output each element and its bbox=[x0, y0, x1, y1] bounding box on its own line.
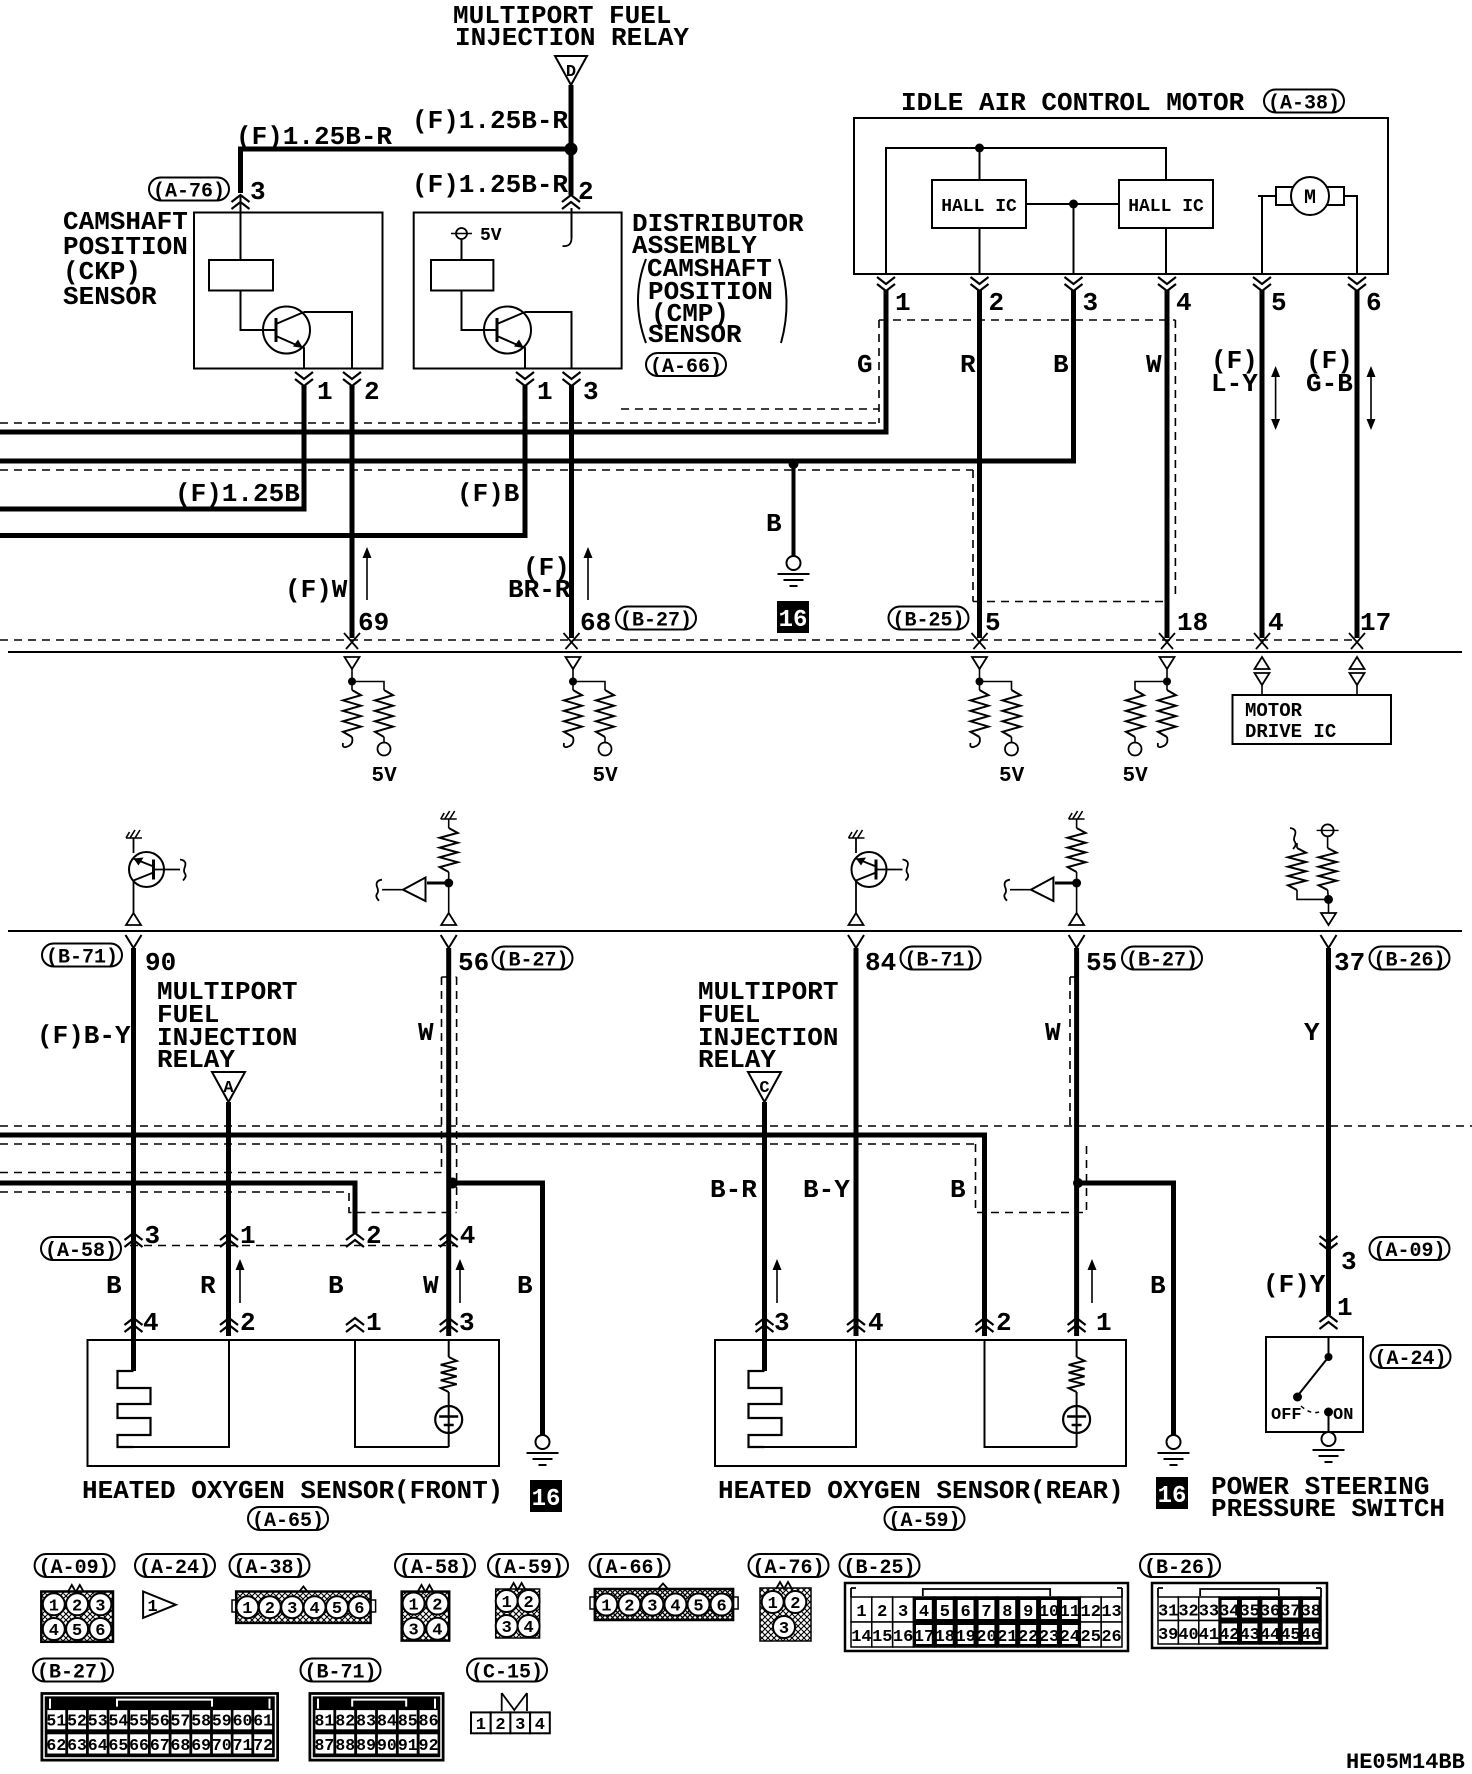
svg-text:90: 90 bbox=[377, 1736, 397, 1755]
connector label A-09 bbox=[35, 1554, 115, 1580]
connector label C-15 bbox=[467, 1659, 547, 1685]
svg-text:2: 2 bbox=[996, 1308, 1012, 1338]
connector label A-38 (schematic) bbox=[1264, 90, 1344, 116]
dashed harness line lower 3 bbox=[0, 1172, 442, 1174]
svg-text:B: B bbox=[1053, 350, 1069, 380]
svg-text:(A-09): (A-09) bbox=[39, 1557, 111, 1580]
svg-text:26: 26 bbox=[1101, 1628, 1121, 1647]
svg-text:2: 2 bbox=[495, 1716, 505, 1735]
arrow on wire 69 bbox=[366, 551, 368, 600]
svg-text:3: 3 bbox=[502, 1619, 512, 1638]
CMP wire collector to pin 3 bbox=[525, 312, 572, 369]
ECU output transistor pin 90 bbox=[126, 830, 186, 925]
svg-text:HEATED OXYGEN SENSOR(REAR): HEATED OXYGEN SENSOR(REAR) bbox=[718, 1476, 1124, 1506]
svg-text:RELAY: RELAY bbox=[698, 1045, 776, 1075]
svg-text:9: 9 bbox=[1023, 1603, 1033, 1622]
svg-text:(A-76): (A-76) bbox=[153, 181, 225, 204]
ECU pin entry mark x=1167 bbox=[1159, 633, 1175, 649]
dashed channel front W left bbox=[441, 977, 443, 1173]
A-58 pin 3 chevrons bbox=[125, 1233, 143, 1247]
CMP 5V supply circle bbox=[451, 226, 502, 246]
IAC internal top wire bbox=[886, 148, 1166, 274]
svg-text:6: 6 bbox=[716, 1598, 726, 1617]
svg-text:(A-66): (A-66) bbox=[650, 356, 722, 379]
connector pinout A-76 bbox=[760, 1582, 811, 1641]
wire R from IAC pin 2 to ECU pin 5 bbox=[977, 290, 982, 638]
svg-text:61: 61 bbox=[253, 1712, 273, 1731]
IAC pin 2 chevrons bbox=[971, 277, 989, 291]
svg-text:(F)1.25B-R: (F)1.25B-R bbox=[412, 170, 568, 200]
A-58 pin 4 chevrons bbox=[440, 1233, 458, 1247]
CKP wire emitter to pin 1 bbox=[303, 347, 304, 369]
ground ref 16 black box front bbox=[530, 1480, 562, 1513]
arrow front pin 3 bbox=[459, 1263, 461, 1303]
rear O2 pin chevrons x=764.5 bbox=[756, 1318, 774, 1332]
svg-text:(A-24): (A-24) bbox=[1374, 1348, 1446, 1371]
svg-text:PRESSURE SWITCH: PRESSURE SWITCH bbox=[1211, 1494, 1445, 1524]
front O2 heater return wire bbox=[134, 1340, 230, 1447]
svg-text:16: 16 bbox=[532, 1486, 561, 1513]
svg-text:5V: 5V bbox=[372, 765, 398, 788]
power steering switch contact and blade bbox=[1293, 1337, 1333, 1431]
svg-text:8: 8 bbox=[1002, 1603, 1012, 1622]
svg-text:7: 7 bbox=[981, 1603, 991, 1622]
IAC junction node mid wire bbox=[1069, 200, 1078, 209]
svg-text:60: 60 bbox=[233, 1712, 253, 1731]
svg-text:20: 20 bbox=[976, 1628, 996, 1647]
IAC wire to Hall IC 1 bbox=[979, 148, 981, 180]
svg-text:38: 38 bbox=[1301, 1602, 1321, 1621]
svg-text:71: 71 bbox=[233, 1736, 253, 1755]
connector label A-59 (schematic) bbox=[885, 1507, 965, 1533]
arrow on wire 68 bbox=[587, 551, 589, 600]
svg-text:31: 31 bbox=[1158, 1602, 1178, 1621]
svg-text:59: 59 bbox=[212, 1712, 232, 1731]
svg-text:2: 2 bbox=[240, 1308, 256, 1338]
svg-text:4: 4 bbox=[535, 1716, 545, 1735]
front A-58 pin dashed line bbox=[130, 1245, 455, 1247]
svg-text:16: 16 bbox=[1158, 1483, 1187, 1510]
IAC motor box bbox=[854, 118, 1388, 274]
pin chevrons A-76 pin 3 bbox=[232, 195, 250, 209]
svg-text:ON: ON bbox=[1333, 1406, 1353, 1425]
CMP pickup coil bbox=[431, 260, 493, 291]
svg-text:63: 63 bbox=[67, 1736, 87, 1755]
camshaft position sensor text bbox=[63, 207, 188, 312]
ECU resistor divider pin 37 bbox=[1288, 824, 1339, 925]
svg-text:(B-27): (B-27) bbox=[37, 1662, 109, 1685]
svg-text:41: 41 bbox=[1199, 1626, 1219, 1645]
connector pinout B-71 bbox=[309, 1693, 444, 1761]
svg-text:B-R: B-R bbox=[710, 1175, 757, 1205]
A-09 pin chevrons on Y wire bbox=[1320, 1236, 1338, 1250]
heated oxygen sensor rear box bbox=[715, 1340, 1126, 1466]
svg-text:(C-15): (C-15) bbox=[471, 1662, 543, 1685]
dashed channel front W right bbox=[456, 977, 458, 1213]
front O2 pin chevrons x=448.7 bbox=[440, 1318, 458, 1332]
wire B from IAC pin 3 bbox=[0, 290, 1074, 461]
IAC pin 6 chevrons bbox=[1348, 277, 1366, 291]
dashed harness line lower 4 bbox=[0, 1192, 457, 1213]
distributor (CMP) box bbox=[414, 213, 622, 369]
svg-text:34: 34 bbox=[1219, 1602, 1239, 1621]
svg-text:32: 32 bbox=[1178, 1602, 1198, 1621]
motor drive IC box bbox=[1233, 695, 1392, 744]
CMP wire emitter to pin 1 bbox=[524, 347, 525, 369]
ECU buffer pin 56 bbox=[376, 811, 457, 925]
svg-text:1: 1 bbox=[601, 1598, 611, 1617]
svg-text:B: B bbox=[328, 1271, 344, 1301]
connector label A-76 (bottom) bbox=[749, 1554, 829, 1580]
svg-text:R: R bbox=[200, 1271, 216, 1301]
wire bus to front A-58 pin 2 bbox=[0, 1183, 355, 1233]
connector label B-27 at pin 68 bbox=[616, 607, 696, 633]
dashed harness rear leg bbox=[976, 1144, 1087, 1213]
svg-text:44: 44 bbox=[1260, 1626, 1280, 1645]
svg-text:(B-26): (B-26) bbox=[1144, 1557, 1216, 1580]
full-width dashed harness line upper bbox=[0, 422, 879, 424]
svg-text:B: B bbox=[106, 1271, 122, 1301]
front O2 cell (resistor+battery) bbox=[435, 1340, 462, 1447]
connector label B-71 at pin 90 bbox=[42, 944, 122, 970]
connector label B-71 (bottom) bbox=[301, 1659, 381, 1685]
svg-text:1: 1 bbox=[1096, 1308, 1112, 1338]
svg-text:56: 56 bbox=[458, 948, 489, 978]
wire W pin 55 to rear O2 pin 1 bbox=[1074, 948, 1079, 1336]
svg-text:84: 84 bbox=[377, 1712, 397, 1731]
svg-text:2: 2 bbox=[578, 177, 594, 207]
svg-text:4: 4 bbox=[309, 1600, 319, 1619]
svg-text:(A-65): (A-65) bbox=[252, 1510, 324, 1533]
junction node on 1.25B-R wire bbox=[565, 143, 578, 156]
svg-text:64: 64 bbox=[88, 1736, 108, 1755]
svg-text:13: 13 bbox=[1101, 1603, 1121, 1622]
wire B to ground bbox=[792, 463, 796, 556]
svg-text:25: 25 bbox=[1081, 1628, 1101, 1647]
ECU output transistor pin 84 bbox=[849, 830, 909, 925]
ECU pullup network pin 68 bbox=[564, 657, 618, 788]
connector label A-65 bbox=[248, 1507, 328, 1533]
connector pinout A-24 (triangle) bbox=[143, 1592, 176, 1618]
harness dashed bottom bbox=[973, 601, 1167, 603]
front O2 pin numbers bbox=[143, 1308, 475, 1338]
wire label (F) L-Y bbox=[1211, 346, 1258, 399]
CKP wire coil to transistor base bbox=[241, 291, 277, 331]
rear O2 sense wire bbox=[985, 1340, 1077, 1447]
svg-text:(A-24): (A-24) bbox=[139, 1557, 211, 1580]
svg-text:HE05M14BB: HE05M14BB bbox=[1346, 1750, 1465, 1774]
svg-text:54: 54 bbox=[108, 1712, 128, 1731]
front MFI relay text bbox=[157, 977, 297, 1075]
svg-text:43: 43 bbox=[1239, 1626, 1259, 1645]
svg-text:46: 46 bbox=[1301, 1626, 1321, 1645]
svg-text:2: 2 bbox=[364, 377, 380, 407]
svg-text:OFF: OFF bbox=[1271, 1406, 1302, 1425]
power steering ground symbol bbox=[1322, 1432, 1336, 1446]
connector label A-38 bbox=[230, 1554, 310, 1580]
A-58 pin 2 chevrons bbox=[346, 1233, 364, 1247]
front O2 pin chevrons x=133.5 bbox=[125, 1318, 143, 1332]
svg-text:(B-25): (B-25) bbox=[843, 1557, 915, 1580]
connector label A-24 bbox=[135, 1554, 215, 1580]
svg-text:A: A bbox=[223, 1079, 234, 1098]
svg-text:(F)B: (F)B bbox=[457, 479, 520, 509]
harness dashed box B-25 right bbox=[1174, 320, 1176, 600]
svg-text:3: 3 bbox=[583, 377, 599, 407]
front O2 pin chevrons x=355 bbox=[346, 1318, 364, 1332]
svg-text:(B-71): (B-71) bbox=[46, 947, 118, 970]
svg-text:4: 4 bbox=[523, 1619, 533, 1638]
svg-text:2: 2 bbox=[624, 1598, 634, 1617]
CKP pickup coil bbox=[209, 260, 273, 291]
svg-text:68: 68 bbox=[580, 608, 611, 638]
connector label B-26 (bottom) bbox=[1140, 1554, 1220, 1580]
arrow front pin 2 bbox=[239, 1263, 241, 1303]
svg-text:17: 17 bbox=[914, 1628, 934, 1647]
harness dashed left lower leg bbox=[972, 470, 974, 602]
connector label B-27 (bottom) bbox=[33, 1659, 113, 1685]
svg-text:1: 1 bbox=[856, 1603, 866, 1622]
svg-text:2: 2 bbox=[265, 1600, 275, 1619]
front O2 sense wire bbox=[355, 1340, 449, 1447]
junction front W wire bbox=[447, 1178, 458, 1189]
IAC wire Hall IC1 to pin 2 bbox=[979, 228, 981, 274]
svg-text:B: B bbox=[1150, 1271, 1166, 1301]
svg-text:B: B bbox=[766, 509, 782, 539]
IAC Hall IC 2 bbox=[1119, 180, 1213, 228]
svg-text:82: 82 bbox=[335, 1712, 355, 1731]
svg-text:1: 1 bbox=[49, 1597, 59, 1616]
CKP pin 1 chevrons bbox=[295, 372, 313, 386]
svg-text:12: 12 bbox=[1081, 1603, 1101, 1622]
wire B-Y pin 84 to rear O2 pin 4 bbox=[854, 948, 859, 1336]
svg-text:(A-59): (A-59) bbox=[492, 1557, 564, 1580]
svg-text:6: 6 bbox=[354, 1600, 364, 1619]
CKP internal wire from pin 3 bbox=[240, 196, 242, 260]
svg-text:22: 22 bbox=[1018, 1628, 1038, 1647]
wire rear W branch to ground B bbox=[1078, 1183, 1174, 1435]
power steering switch title bbox=[1211, 1472, 1445, 1524]
wire (F)BR-R CMP pin 3 to ECU pin 68 bbox=[569, 385, 574, 638]
ECU pin exit mark x=1076.6 bbox=[1069, 935, 1085, 948]
IAC wire motor right terminal to pin 6 bbox=[1344, 196, 1357, 274]
svg-text:5: 5 bbox=[940, 1603, 950, 1622]
heated oxygen sensor front box bbox=[88, 1340, 500, 1466]
connector label B-71 at pin 84 bbox=[901, 947, 981, 973]
svg-text:HALL IC: HALL IC bbox=[941, 197, 1017, 217]
ECU separator line top section bbox=[8, 651, 1462, 653]
ground symbol rear bbox=[1167, 1435, 1181, 1449]
svg-text:(B-27): (B-27) bbox=[620, 610, 692, 633]
svg-text:5V: 5V bbox=[480, 226, 502, 246]
svg-text:3: 3 bbox=[408, 1622, 418, 1641]
svg-text:5: 5 bbox=[72, 1622, 82, 1641]
rear O2 pin numbers bbox=[774, 1308, 1112, 1338]
front O2 heater element bbox=[118, 1371, 151, 1447]
svg-text:1: 1 bbox=[768, 1595, 778, 1614]
svg-text:24: 24 bbox=[1060, 1628, 1080, 1647]
svg-text:L-Y: L-Y bbox=[1211, 369, 1258, 399]
svg-text:11: 11 bbox=[1060, 1603, 1080, 1622]
svg-text:(A-58): (A-58) bbox=[399, 1557, 471, 1580]
svg-text:(B-27): (B-27) bbox=[1126, 950, 1198, 973]
connector label B-25 (bottom) bbox=[840, 1554, 920, 1580]
svg-text:3: 3 bbox=[1341, 1247, 1357, 1277]
wire relay A to front O2 pin 2 bbox=[226, 1102, 231, 1336]
connector label A-76 bbox=[149, 178, 229, 204]
svg-text:51: 51 bbox=[46, 1712, 66, 1731]
connector pinout B-25 bbox=[845, 1583, 1128, 1651]
svg-text:4: 4 bbox=[670, 1598, 680, 1617]
svg-text:1: 1 bbox=[317, 377, 333, 407]
junction rear W wire bbox=[1073, 1178, 1083, 1188]
svg-text:1: 1 bbox=[408, 1597, 418, 1616]
svg-text:16: 16 bbox=[893, 1628, 913, 1647]
svg-text:2: 2 bbox=[877, 1603, 887, 1622]
svg-text:35: 35 bbox=[1239, 1602, 1259, 1621]
svg-text:HEATED OXYGEN SENSOR(FRONT): HEATED OXYGEN SENSOR(FRONT) bbox=[82, 1476, 503, 1506]
svg-text:90: 90 bbox=[145, 948, 176, 978]
wire (F)1.25B-R branch to CKP pin 3 bbox=[241, 149, 572, 193]
svg-text:83: 83 bbox=[356, 1712, 376, 1731]
svg-text:3: 3 bbox=[774, 1308, 790, 1338]
svg-text:5: 5 bbox=[1271, 288, 1287, 318]
connector pinout A-38 bbox=[232, 1587, 376, 1623]
ECU pin entry mark x=1262 bbox=[1254, 633, 1270, 649]
ECU pin exit mark x=133.5 bbox=[126, 935, 142, 948]
ECU pin 4 stacked triangles bbox=[1255, 657, 1270, 695]
svg-text:D: D bbox=[566, 63, 576, 82]
ECU pin entry mark x=979.5 bbox=[972, 633, 988, 649]
IAC Hall IC 1 bbox=[932, 180, 1026, 228]
svg-text:(A-59): (A-59) bbox=[888, 1510, 960, 1533]
wire label (F) G-B bbox=[1306, 346, 1353, 399]
power steering switch box bbox=[1266, 1337, 1363, 1432]
CMP pin 1 chevrons bbox=[516, 372, 534, 386]
distributor assembly text bbox=[632, 209, 804, 350]
rear MFI relay text bbox=[698, 977, 838, 1075]
svg-text:3: 3 bbox=[459, 1308, 475, 1338]
svg-text:MOTOR: MOTOR bbox=[1245, 700, 1303, 722]
wire relay C to rear O2 pin 3 bbox=[762, 1102, 767, 1371]
IAC pin 3 chevrons bbox=[1065, 277, 1083, 291]
svg-text:RELAY: RELAY bbox=[157, 1045, 235, 1075]
svg-text:3: 3 bbox=[250, 177, 266, 207]
CKP pin 2 chevrons bbox=[343, 372, 361, 386]
A-58 pin 1 chevrons bbox=[220, 1233, 238, 1247]
svg-text:52: 52 bbox=[67, 1712, 87, 1731]
svg-text:18: 18 bbox=[1177, 608, 1208, 638]
svg-text:W: W bbox=[1045, 1018, 1061, 1048]
svg-text:55: 55 bbox=[129, 1712, 149, 1731]
rear O2 heater return wire bbox=[765, 1340, 857, 1447]
svg-text:3: 3 bbox=[515, 1716, 525, 1735]
svg-text:56: 56 bbox=[150, 1712, 170, 1731]
svg-text:70: 70 bbox=[212, 1736, 232, 1755]
svg-text:58: 58 bbox=[191, 1712, 211, 1731]
svg-text:2: 2 bbox=[432, 1597, 442, 1616]
svg-text:6: 6 bbox=[1366, 288, 1382, 318]
CMP wire 5V to coil bbox=[461, 239, 463, 260]
svg-text:W: W bbox=[423, 1271, 439, 1301]
ground symbol front bbox=[536, 1435, 550, 1449]
svg-text:86: 86 bbox=[419, 1712, 439, 1731]
svg-text:(B-71): (B-71) bbox=[904, 950, 976, 973]
wire W pin 56 to front O2 pin 3 bbox=[446, 948, 451, 1336]
svg-text:62: 62 bbox=[46, 1736, 66, 1755]
svg-text:69: 69 bbox=[358, 608, 389, 638]
CMP pin-2 shield pigtail bbox=[571, 208, 573, 238]
svg-text:2: 2 bbox=[790, 1595, 800, 1614]
svg-text:3: 3 bbox=[287, 1600, 297, 1619]
svg-text:72: 72 bbox=[253, 1736, 273, 1755]
IAC wire Hall IC2 to pin 4 bbox=[1165, 228, 1167, 274]
front A-58 connector label bbox=[41, 1237, 121, 1263]
CKP sensor box bbox=[194, 213, 383, 369]
label MULTIPORT FUEL INJECTION RELAY (D) bbox=[453, 1, 689, 53]
pin chevrons CMP pin 2 bbox=[562, 195, 580, 209]
svg-text:1: 1 bbox=[1337, 1293, 1353, 1323]
IAC wire motor left terminal to pin 5 bbox=[1258, 196, 1276, 274]
svg-text:4: 4 bbox=[432, 1622, 442, 1641]
connector label B-26 at pin 37 bbox=[1370, 947, 1450, 973]
svg-text:66: 66 bbox=[129, 1736, 149, 1755]
svg-text:33: 33 bbox=[1199, 1602, 1219, 1621]
svg-text:87: 87 bbox=[315, 1736, 335, 1755]
CMP transistor bbox=[484, 307, 531, 354]
ECU pullup network pin 18 bbox=[1123, 657, 1177, 788]
svg-text:5: 5 bbox=[693, 1598, 703, 1617]
IAC pin 4 chevrons bbox=[1158, 277, 1176, 291]
svg-text:G-B: G-B bbox=[1306, 369, 1353, 399]
svg-text:45: 45 bbox=[1280, 1626, 1300, 1645]
labels rear wire colors bbox=[710, 1175, 966, 1205]
ground ref 16 black box rear bbox=[1156, 1477, 1188, 1510]
svg-text:BR-R: BR-R bbox=[508, 575, 571, 605]
svg-text:36: 36 bbox=[1260, 1602, 1280, 1621]
ECU pin 17 stacked triangles bbox=[1350, 657, 1365, 695]
svg-text:(B-71): (B-71) bbox=[304, 1662, 376, 1685]
svg-text:R: R bbox=[960, 350, 976, 380]
svg-text:40: 40 bbox=[1178, 1626, 1198, 1645]
connector pinout A-66 bbox=[590, 1584, 738, 1621]
rear O2 pin chevrons x=1076.6 bbox=[1068, 1318, 1086, 1332]
svg-text:HALL IC: HALL IC bbox=[1128, 197, 1204, 217]
svg-text:(F)1.25B-R: (F)1.25B-R bbox=[412, 106, 568, 136]
wire (F)W CKP pin 2 to ECU pin 69 bbox=[350, 385, 355, 638]
svg-text:85: 85 bbox=[398, 1712, 418, 1731]
svg-text:2: 2 bbox=[523, 1594, 533, 1613]
svg-text:84: 84 bbox=[865, 948, 896, 978]
double arrow L-Y bbox=[1275, 375, 1277, 421]
svg-text:(F)Y: (F)Y bbox=[1263, 1270, 1326, 1300]
connector label B-27 at pin 55 bbox=[1122, 947, 1202, 973]
connector label B-27 at pin 56 bbox=[493, 947, 573, 973]
ECU pin exit mark x=448.7 bbox=[441, 935, 457, 948]
svg-text:42: 42 bbox=[1219, 1626, 1239, 1645]
relay symbol D (triangle) bbox=[555, 56, 587, 85]
connector label A-59 bbox=[488, 1554, 568, 1580]
svg-text:39: 39 bbox=[1158, 1626, 1178, 1645]
svg-text:B: B bbox=[517, 1271, 533, 1301]
svg-text:(A-38): (A-38) bbox=[233, 1557, 305, 1580]
svg-text:6: 6 bbox=[95, 1622, 105, 1641]
IAC wire Hall IC1 to Hall IC2 bbox=[1026, 203, 1119, 205]
svg-text:91: 91 bbox=[398, 1736, 418, 1755]
svg-text:DRIVE IC: DRIVE IC bbox=[1245, 721, 1336, 743]
wire W from IAC pin 4 to ECU pin 18 bbox=[1165, 290, 1170, 638]
rear O2 pin chevrons x=856 bbox=[847, 1318, 865, 1332]
